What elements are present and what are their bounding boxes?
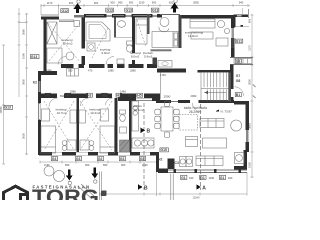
svg-text:H2: H2 (117, 94, 121, 98)
svg-text:890: 890 (65, 163, 70, 167)
svg-text:10.7m2: 10.7m2 (57, 111, 67, 115)
svg-text:1190: 1190 (209, 176, 215, 180)
svg-text:12.6m2: 12.6m2 (63, 42, 73, 46)
svg-text:900: 900 (248, 18, 252, 23)
svg-text:G7: G7 (236, 74, 241, 78)
svg-text:5.9m2: 5.9m2 (144, 55, 153, 59)
svg-text:3950: 3950 (22, 79, 26, 85)
svg-text:G15: G15 (161, 148, 168, 152)
svg-text:940: 940 (228, 176, 233, 180)
svg-text:890: 890 (118, 1, 123, 5)
svg-text:A: A (202, 185, 206, 191)
svg-text:11540: 11540 (192, 196, 200, 200)
svg-text:1880: 1880 (108, 69, 114, 73)
svg-text:900: 900 (129, 1, 134, 5)
svg-text:900: 900 (85, 163, 90, 167)
svg-text:10.3m2: 10.3m2 (90, 111, 100, 115)
svg-text:900: 900 (121, 163, 126, 167)
svg-text:G3: G3 (52, 157, 57, 161)
svg-text:G11: G11 (236, 40, 242, 44)
svg-text:950: 950 (68, 69, 73, 73)
svg-text:G1: G1 (200, 176, 205, 180)
svg-text:1740: 1740 (160, 73, 166, 77)
svg-text:940: 940 (189, 176, 194, 180)
svg-text:2590: 2590 (164, 94, 171, 98)
svg-text:940: 940 (239, 1, 244, 5)
svg-text:1170: 1170 (248, 45, 252, 51)
svg-text:26.2m2: 26.2m2 (189, 110, 200, 114)
svg-text:1170: 1170 (47, 1, 53, 5)
svg-text:1190: 1190 (44, 163, 50, 167)
svg-text:5105: 5105 (248, 162, 252, 168)
svg-text:B: B (144, 185, 148, 191)
svg-text:H5: H5 (66, 94, 70, 98)
svg-text:8.0m2: 8.0m2 (131, 55, 140, 59)
svg-text:2855: 2855 (193, 1, 199, 5)
svg-text:H2: H2 (158, 158, 162, 162)
svg-text:G3: G3 (140, 157, 145, 161)
svg-text:2880: 2880 (70, 90, 76, 94)
svg-text:2990: 2990 (191, 94, 197, 98)
svg-text:900: 900 (69, 1, 74, 5)
svg-text:G13: G13 (152, 9, 159, 13)
svg-text:G3: G3 (120, 157, 125, 161)
svg-text:2650: 2650 (248, 79, 252, 85)
svg-text:1480: 1480 (120, 90, 126, 94)
svg-text:900: 900 (94, 1, 99, 5)
svg-text:900: 900 (152, 1, 157, 5)
svg-text:1880: 1880 (46, 69, 52, 73)
svg-text:B1: B1 (236, 93, 240, 97)
svg-text:C3: C3 (175, 161, 179, 165)
svg-text:1190: 1190 (139, 1, 145, 5)
svg-text:H5: H5 (137, 94, 141, 98)
svg-text:10550: 10550 (0, 106, 3, 114)
svg-text:900: 900 (110, 1, 115, 5)
svg-text:790: 790 (128, 94, 133, 98)
svg-text:G13: G13 (107, 9, 114, 13)
svg-text:G12: G12 (62, 9, 69, 13)
svg-text:470: 470 (88, 69, 93, 73)
svg-text:B: B (147, 129, 151, 135)
svg-text:6.9m2: 6.9m2 (102, 51, 111, 55)
svg-text:G13: G13 (5, 106, 12, 110)
svg-text:10.6m2: 10.6m2 (134, 108, 144, 112)
svg-text:G1: G1 (220, 176, 225, 180)
svg-text:G2: G2 (98, 157, 103, 161)
svg-text:890: 890 (103, 163, 108, 167)
svg-text:3050: 3050 (22, 133, 26, 139)
svg-text:G13: G13 (126, 9, 133, 13)
svg-text:K2: K2 (33, 81, 37, 85)
svg-text:2880: 2880 (130, 69, 136, 73)
svg-text:3060: 3060 (22, 29, 26, 35)
svg-text:N: 73.87: N: 73.87 (221, 110, 233, 114)
svg-text:H3: H3 (87, 94, 91, 98)
svg-text:G1: G1 (181, 176, 186, 180)
svg-text:890: 890 (60, 94, 65, 98)
svg-text:G13: G13 (31, 55, 38, 59)
svg-text:TORG: TORG (32, 185, 99, 200)
svg-text:G9: G9 (236, 60, 241, 64)
svg-text:620: 620 (169, 1, 174, 5)
svg-text:1090: 1090 (22, 53, 26, 59)
svg-text:G8: G8 (236, 79, 241, 83)
svg-text:G3: G3 (76, 157, 81, 161)
svg-text:H5: H5 (46, 94, 50, 98)
svg-text:890: 890 (103, 94, 108, 98)
svg-text:1190: 1190 (142, 163, 148, 167)
svg-text:11.9m2: 11.9m2 (188, 34, 198, 38)
